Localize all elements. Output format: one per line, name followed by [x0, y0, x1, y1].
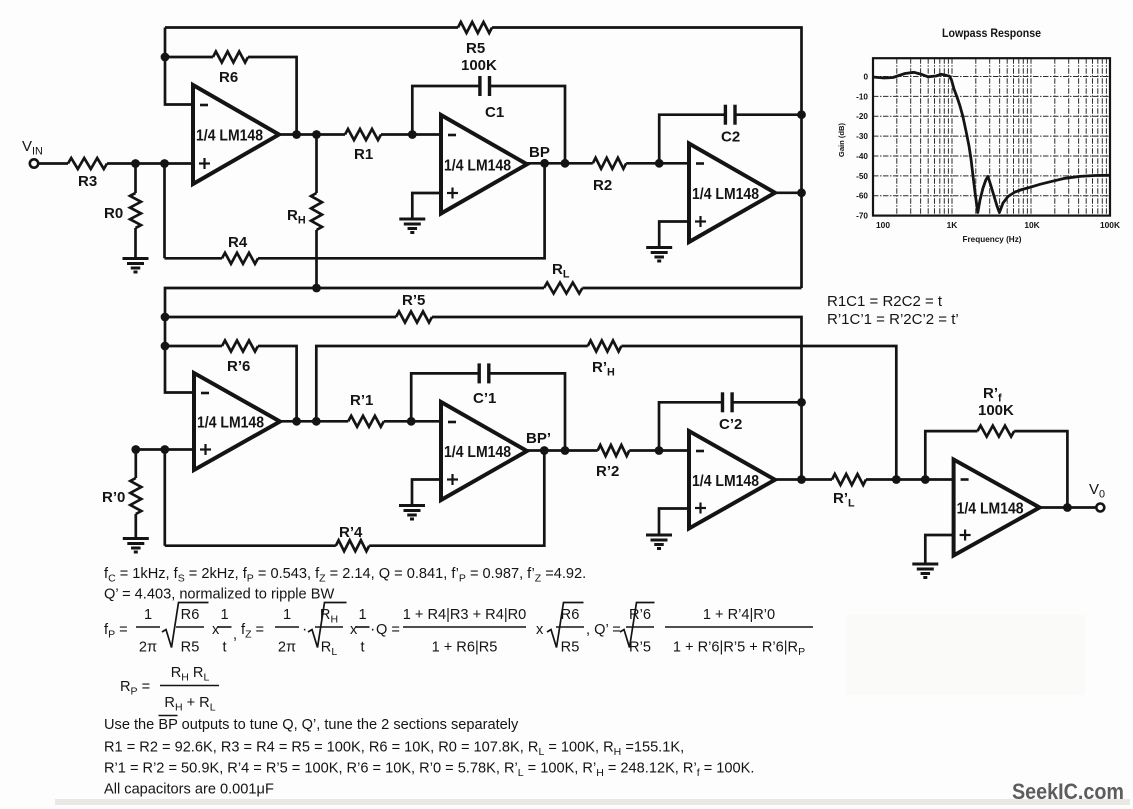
svg-text:2π: 2π: [139, 640, 157, 656]
svg-text:-60: -60: [856, 192, 868, 201]
svg-text:R0: R0: [104, 205, 123, 222]
svg-text:1K: 1K: [947, 220, 958, 230]
wire inverting input vertical U1: [165, 28, 193, 105]
svg-text:R5: R5: [561, 640, 580, 656]
wire left vertical section 2: [165, 317, 194, 393]
svg-text:-30: -30: [856, 132, 868, 141]
resistor R'5: [396, 312, 432, 323]
wire RL line: [582, 287, 801, 290]
wire R6 left stub: [165, 56, 213, 59]
op-amp U3: [689, 144, 775, 243]
wire BP' output line: [527, 449, 598, 452]
resistor R2: [593, 158, 626, 169]
ground for R'0: [123, 537, 149, 540]
wire RL to left vertical: [165, 288, 544, 317]
resistor R'f feedback: [925, 431, 977, 479]
node RH bottom junction: [312, 284, 321, 293]
op-amp U2: [441, 115, 527, 214]
svg-text:,: ,: [233, 627, 237, 643]
resistor R'4: [336, 540, 369, 551]
wire U1 output: [279, 133, 345, 136]
op-amp U5: [441, 402, 527, 500]
resistor R6: [213, 52, 248, 63]
node RH top junction: [312, 130, 321, 139]
node junction R0: [131, 159, 140, 168]
svg-text:-50: -50: [856, 172, 868, 181]
wire R'H to U7 input: [621, 346, 896, 480]
node junction to R4: [160, 159, 169, 168]
svg-text:1: 1: [144, 607, 152, 623]
svg-text:fP =: fP =: [104, 622, 128, 641]
resistor R'2: [598, 445, 630, 456]
resistor R'L: [832, 474, 866, 485]
wire R2 to op-amp U3: [626, 162, 689, 165]
svg-text:1 + R6|R5: 1 + R6|R5: [432, 640, 498, 656]
svg-text:-40: -40: [856, 152, 868, 161]
resistor RL: [544, 283, 582, 294]
node U7 output junction: [1063, 503, 1072, 512]
svg-text:1/4 LM148: 1/4 LM148: [197, 415, 264, 432]
scan artifact band: [55, 799, 1130, 805]
wire R'4 line: [165, 544, 336, 547]
ground for U7: [912, 563, 938, 566]
svg-text:Q’ = 4.403, normalized to ripp: Q’ = 4.403, normalized to ripple BW: [104, 587, 334, 603]
node R'H output junction: [312, 417, 321, 426]
op-amp U6: [689, 431, 775, 529]
resistor RH: [315, 135, 318, 194]
svg-text:-10: -10: [856, 92, 868, 101]
svg-text:t: t: [360, 640, 364, 656]
capacitor C1: [412, 86, 480, 135]
capacitor C2: [659, 115, 725, 164]
svg-text:R’6: R’6: [629, 607, 651, 623]
svg-text:R1 = R2 = 92.6K, R3 = R4 = R5: R1 = R2 = 92.6K, R3 = R4 = R5 = 100K, R6…: [104, 740, 684, 759]
resistor R3: [68, 158, 107, 169]
node V0 terminal: [1096, 504, 1104, 512]
wire R3 to op-amp U1 + input: [107, 162, 193, 165]
wire BP output line: [527, 162, 593, 165]
svg-text:R5: R5: [466, 40, 485, 57]
node C'2 left junction: [655, 446, 664, 455]
svg-text:C’1: C’1: [473, 390, 496, 407]
svg-text:-70: -70: [856, 212, 868, 221]
svg-text:R’1: R’1: [350, 392, 373, 409]
svg-text:1/4 LM148: 1/4 LM148: [444, 444, 511, 461]
graph Lowpass Response: [837, 28, 1120, 244]
node R'0 junction: [131, 445, 140, 454]
svg-text:Lowpass Response: Lowpass Response: [942, 28, 1041, 40]
node R'5 left junction: [161, 313, 170, 322]
svg-text:R6: R6: [219, 69, 238, 86]
node R6 left junction: [161, 53, 170, 62]
svg-text:R’6: R’6: [227, 358, 250, 375]
svg-text:1/4 LM148: 1/4 LM148: [196, 128, 263, 145]
svg-text:Use the BP outputs to tune Q,: Use the BP outputs to tune Q, Q’, tune t…: [104, 717, 519, 733]
svg-text:100K: 100K: [1100, 220, 1120, 230]
ground for U5: [399, 504, 425, 507]
svg-text:R’1C’1 = R’2C’2 = t’: R’1C’1 = R’2C’2 = t’: [827, 311, 959, 328]
wire R4 line: [165, 257, 223, 260]
svg-text:fC = 1kHz, fS = 2kHz, fP =: fC = 1kHz, fS = 2kHz, fP = 0.543, fZ = 2…: [104, 566, 586, 585]
ground for U3: [646, 246, 672, 249]
wire R6 right to output: [248, 57, 297, 135]
svg-text:t: t: [222, 640, 226, 656]
wire U3 output: [775, 191, 802, 194]
svg-text:BP’: BP’: [526, 430, 551, 447]
capacitor C'1: [411, 373, 479, 421]
svg-text:x: x: [350, 622, 358, 638]
node VIN terminal: [30, 159, 38, 167]
svg-text:1/4 LM148: 1/4 LM148: [444, 157, 511, 174]
ground for U2: [399, 218, 425, 221]
svg-text:Frequency (Hz): Frequency (Hz): [963, 234, 1022, 244]
svg-text:1: 1: [283, 607, 291, 623]
capacitor C'2: [659, 402, 723, 450]
svg-text:R5: R5: [181, 640, 200, 656]
wire R'5 line: [165, 316, 396, 319]
svg-text:R3: R3: [78, 173, 97, 190]
op-amp U7: [954, 460, 1040, 556]
svg-text:100K: 100K: [461, 57, 497, 74]
svg-text:1/4 LM148: 1/4 LM148: [957, 501, 1024, 518]
wire R'L to op-amp U7: [866, 478, 954, 481]
svg-text:R’0: R’0: [102, 489, 125, 506]
wire U6 output: [775, 478, 832, 481]
svg-text:All capacitors are 0.001μF: All capacitors are 0.001μF: [104, 782, 274, 798]
wire R4 to BP vertical: [258, 163, 545, 258]
wire U7 + input to ground: [925, 535, 953, 564]
svg-text:R’2: R’2: [596, 463, 619, 480]
wire R'H riser: [316, 346, 588, 421]
svg-text:R6: R6: [181, 607, 200, 623]
node U3 output junction: [797, 188, 806, 197]
wire top feedback line right segment: [492, 28, 802, 289]
svg-text:Gain (dB): Gain (dB): [837, 122, 846, 157]
resistor R5: [458, 22, 492, 33]
svg-text:R4: R4: [228, 234, 248, 251]
svg-text:0: 0: [863, 73, 868, 82]
node C'1 left junction: [407, 417, 416, 426]
svg-text:1/4 LM148: 1/4 LM148: [692, 473, 759, 490]
svg-text:1: 1: [220, 607, 228, 623]
svg-text:C2: C2: [721, 129, 740, 146]
node junction to R4p: [160, 445, 169, 454]
resistor R'1: [348, 416, 384, 427]
svg-text:R1: R1: [354, 146, 373, 163]
node R6 output junction: [292, 130, 301, 139]
wire R1 to op-amp U2: [381, 133, 441, 136]
svg-text:x: x: [212, 622, 220, 638]
svg-text:1/4 LM148: 1/4 LM148: [692, 186, 759, 203]
svg-text:R1C1 = R2C2 = t: R1C1 = R2C2 = t: [827, 293, 943, 310]
svg-text:R6: R6: [561, 607, 580, 623]
wire U6 + input to ground: [659, 509, 689, 536]
wire R'1 to op-amp U5: [384, 420, 441, 423]
svg-text:, Q’ =: , Q’ =: [586, 622, 621, 638]
wire VIN to R3: [39, 162, 69, 165]
svg-text:1 + R4|R3 + R4|R0: 1 + R4|R3 + R4|R0: [403, 607, 527, 623]
wire R'2 to op-amp U6: [629, 449, 689, 452]
node R'f left junction: [921, 475, 930, 484]
svg-text:RH + RL: RH + RL: [164, 695, 215, 714]
wire U7 output to V0: [1040, 506, 1096, 509]
svg-text:-20: -20: [856, 112, 868, 121]
wire R'6 line: [165, 345, 222, 348]
svg-text:C’2: C’2: [719, 416, 742, 433]
svg-text:1 + R’4|R’0: 1 + R’4|R’0: [703, 607, 775, 623]
node R'6 output junction: [292, 417, 301, 426]
wire U3 + input to ground: [659, 222, 689, 248]
svg-text:1: 1: [358, 607, 366, 623]
svg-text:BP: BP: [529, 144, 550, 161]
wire + input down to R4 line: [163, 164, 166, 259]
svg-text:10K: 10K: [1024, 220, 1039, 230]
svg-text:2π: 2π: [278, 640, 296, 656]
op-amp U4: [194, 373, 280, 470]
wire U5 + input to ground: [412, 480, 441, 506]
svg-text:R’4: R’4: [339, 524, 363, 541]
resistor R'0: [134, 450, 137, 479]
resistor R0: [134, 164, 137, 194]
svg-text:100: 100: [876, 220, 890, 230]
node R'H right junction: [892, 475, 901, 484]
svg-text:100K: 100K: [978, 402, 1014, 419]
svg-text:R2: R2: [593, 177, 612, 194]
svg-text:fZ =: fZ =: [241, 622, 264, 641]
wire + input down to R'4 line: [163, 450, 166, 546]
wire U4 output: [280, 420, 348, 423]
resistor R4: [222, 253, 258, 264]
svg-text:SeekIC.com: SeekIC.com: [1012, 779, 1124, 804]
svg-text:·: ·: [302, 621, 307, 638]
ground for U6: [646, 534, 672, 537]
svg-text:Q =: Q =: [376, 622, 400, 638]
svg-text:1 + R’6|R’5 + R’6|RP: 1 + R’6|R’5 + R’6|RP: [673, 640, 805, 659]
node C1 left junction: [408, 130, 417, 139]
wire R'4 to BP' vertical: [369, 451, 544, 546]
wire U2 + input to ground: [412, 193, 441, 219]
resistor R1: [345, 129, 381, 140]
node U6 output junction: [797, 475, 806, 484]
svg-text:R’5: R’5: [402, 292, 425, 309]
resistor R'6: [222, 341, 258, 352]
svg-text:x: x: [536, 622, 544, 638]
op-amp U1: [193, 85, 279, 184]
wire U4 + input: [136, 448, 194, 451]
node C2 left junction: [655, 159, 664, 168]
ground for R0: [123, 257, 149, 260]
wire top feedback line left segment: [165, 26, 458, 29]
node R'6 left junction: [161, 342, 170, 351]
svg-text:R’5: R’5: [629, 640, 651, 656]
node C2 right junction: [797, 110, 806, 119]
svg-text:·: ·: [370, 621, 375, 638]
node C'2 right junction: [797, 398, 806, 407]
svg-text:C1: C1: [485, 104, 504, 121]
svg-text:R’1 = R’2 = 50.9K, R’4 = R’5 =: R’1 = R’2 = 50.9K, R’4 = R’5 = 100K, R’6…: [104, 761, 754, 780]
resistor R'H: [588, 341, 622, 352]
